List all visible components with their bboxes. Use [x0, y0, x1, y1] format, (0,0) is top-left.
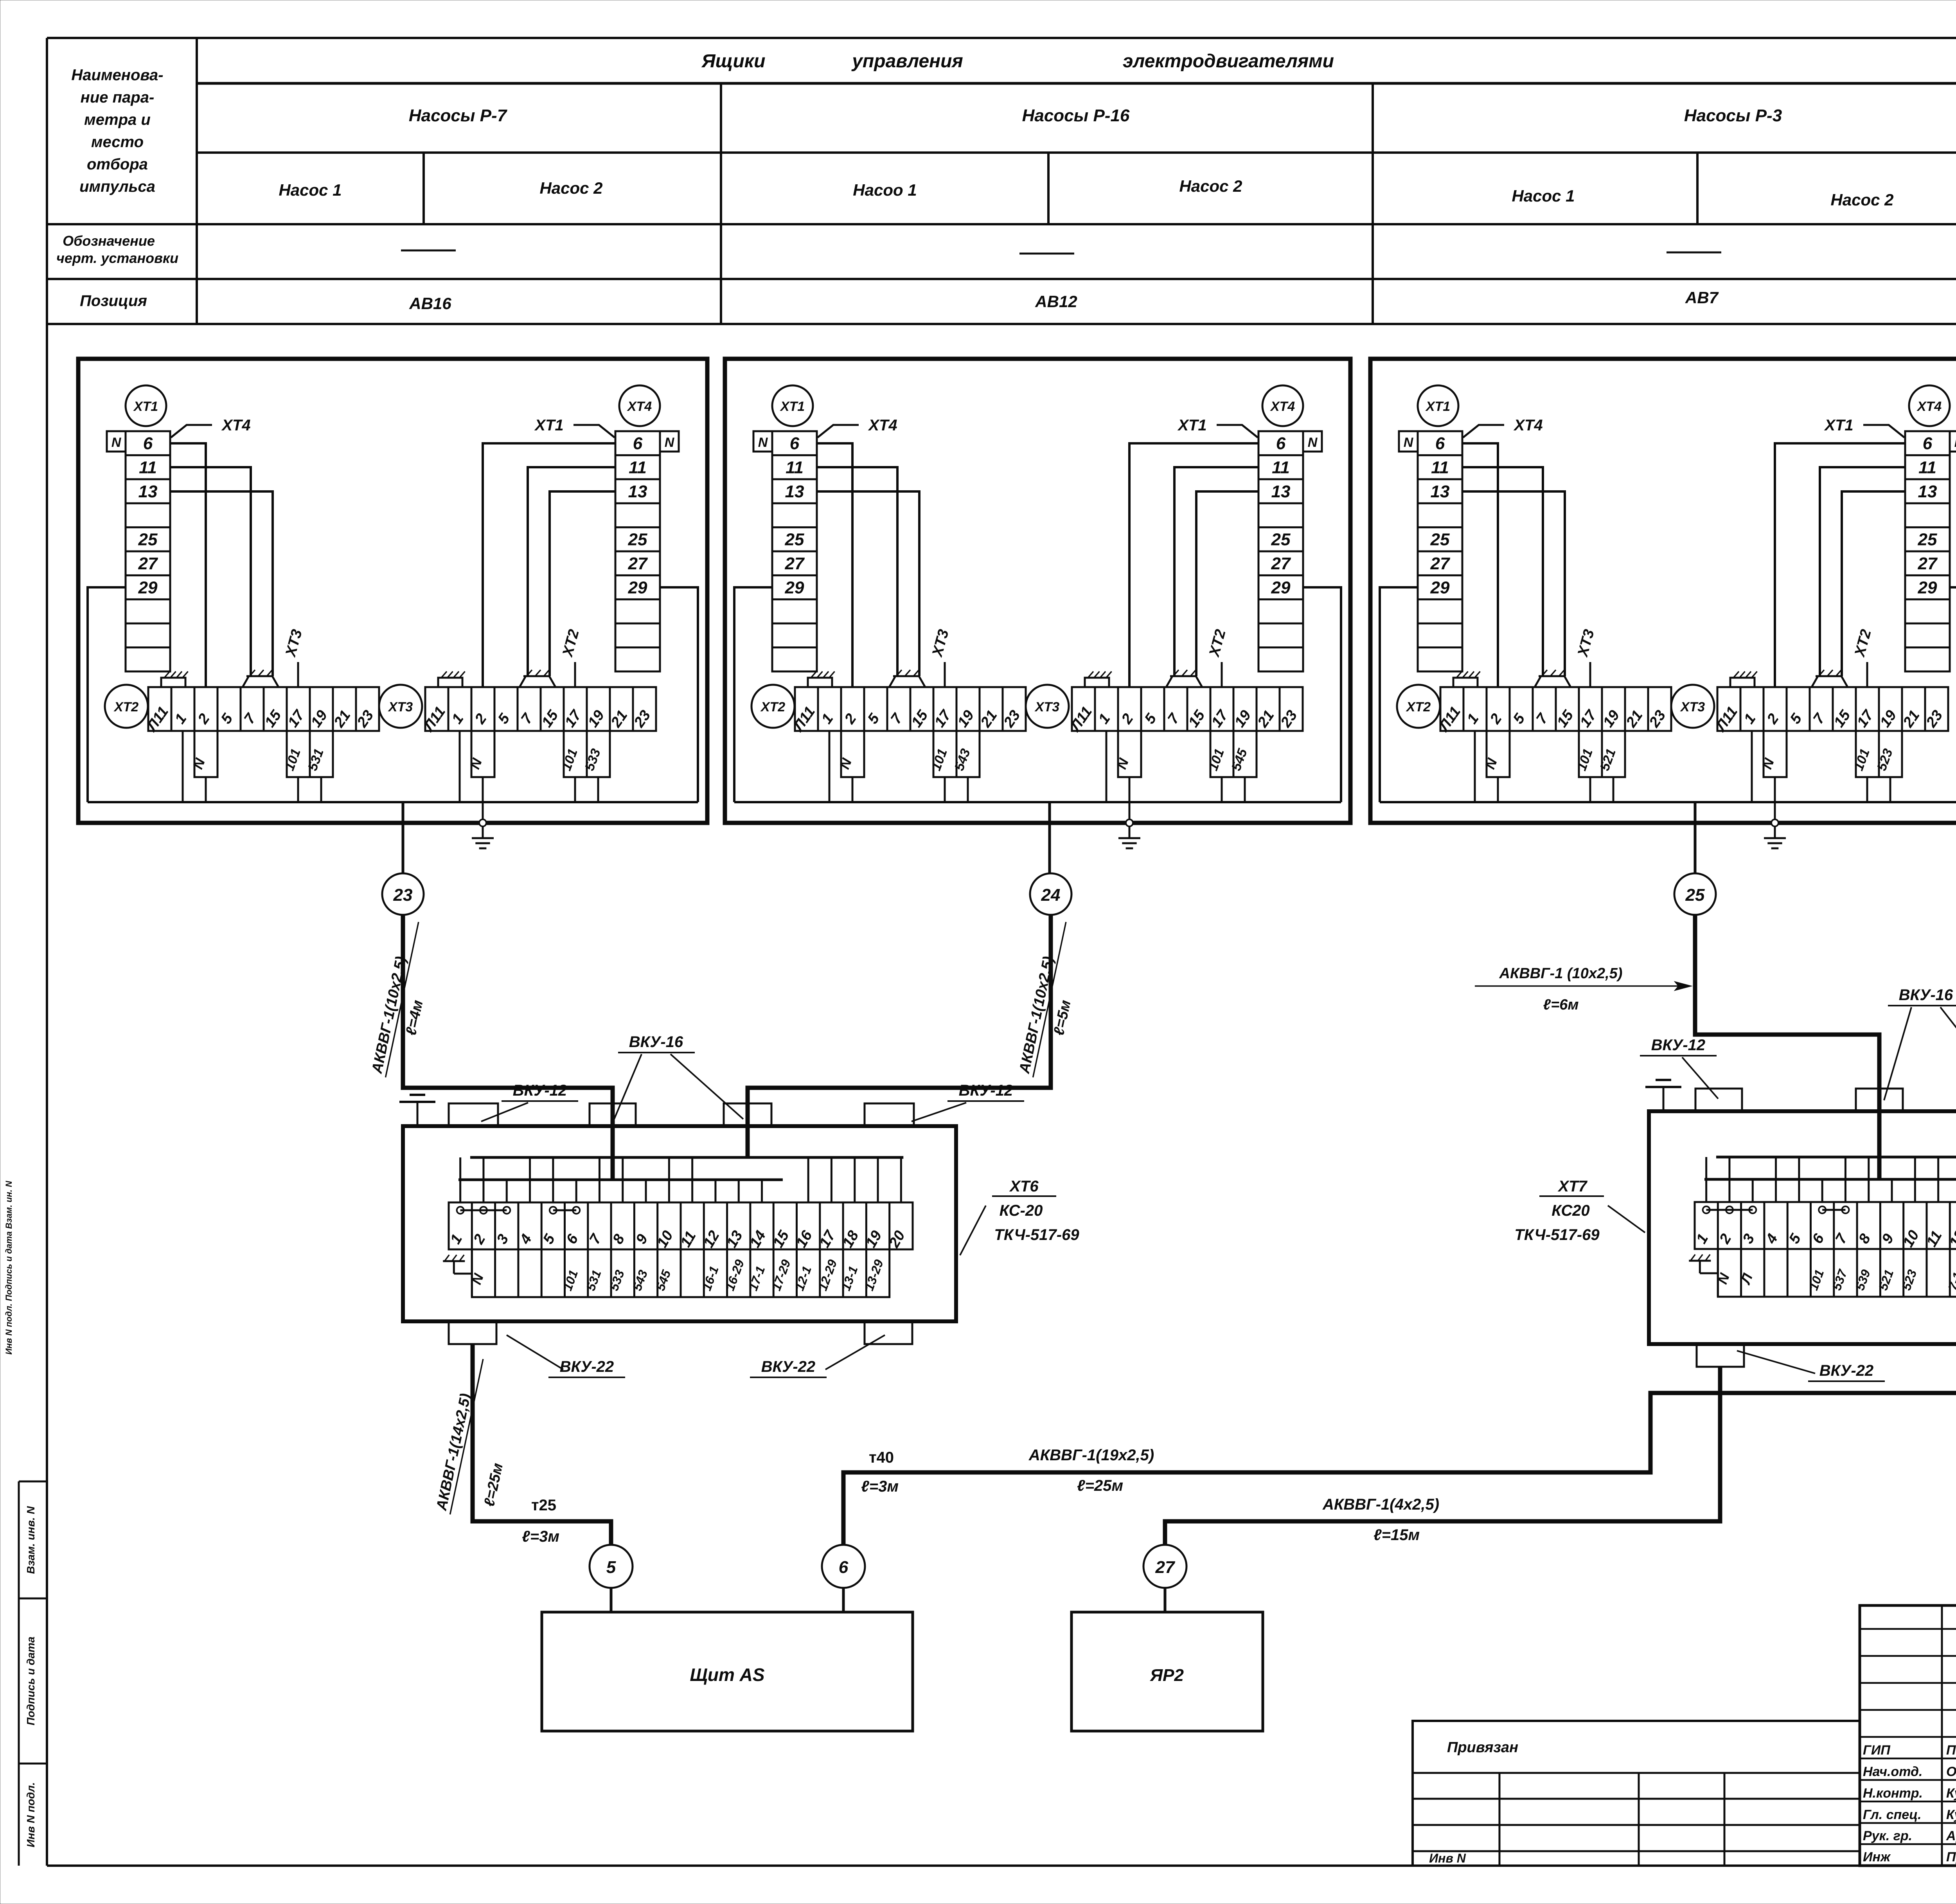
cable marker circle 6	[822, 1545, 865, 1588]
drops XT2-101/543 to bus (unit 2)	[944, 777, 946, 802]
svg-text:Насос 2: Насос 2	[539, 179, 602, 197]
connector circle XT4 (unit 2)	[1262, 385, 1303, 426]
svg-text:Взам. инв. N: Взам. инв. N	[25, 1506, 37, 1574]
svg-text:Инв N подл. Подпись и дата: Инв N подл. Подпись и дата Взам. ин. N	[4, 1181, 14, 1355]
wire XT4-11 to XT3-7 screen (unit 2)	[1174, 467, 1258, 676]
cable screen symbol over XT3-Л11 (unit 1)	[438, 678, 462, 687]
terminal N cell of XT1 (unit 2)	[753, 431, 772, 452]
svg-text:Кузнецов: Кузнецов	[1946, 1807, 1956, 1822]
earth wire from XT3-N (unit 3)	[1774, 777, 1776, 823]
XT7 top cable gland 1	[1695, 1089, 1742, 1111]
svg-text:13: 13	[1918, 482, 1937, 501]
svg-text:13: 13	[628, 482, 647, 501]
svg-text:ХТ1: ХТ1	[1177, 417, 1206, 434]
svg-text:27: 27	[628, 554, 648, 573]
terminal N cell of XT4 (unit 1)	[660, 431, 679, 452]
svg-text:КС20: КС20	[1551, 1202, 1589, 1219]
hanging terminal 101 below XT3-17 (unit 3)	[1856, 731, 1879, 777]
drops XT3-101/533 to bus (unit 1)	[574, 777, 576, 802]
XT7 top cable gland 2	[1856, 1089, 1903, 1111]
svg-text:Пивторак: Пивторак	[1946, 1743, 1956, 1758]
svg-text:Привязан: Привязан	[1447, 1739, 1518, 1756]
terminal strip XT4 (unit 2)	[1258, 431, 1303, 671]
svg-text:ХТ1: ХТ1	[780, 399, 805, 414]
svg-text:ХТ6: ХТ6	[1009, 1178, 1039, 1195]
svg-text:Инж: Инж	[1863, 1850, 1891, 1864]
svg-text:Насосы Р-3: Насосы Р-3	[1684, 106, 1782, 125]
cable marker circle 24	[1030, 873, 1071, 915]
hanging terminal 521 below XT2-19 (unit 3)	[1602, 731, 1625, 777]
XT6 bottom cable gland 2	[865, 1321, 912, 1344]
svg-text:5: 5	[606, 1558, 616, 1577]
cable screen symbol over XT3-Л11 (unit 3)	[1730, 678, 1755, 687]
hanging terminal 101 below XT2-17 (unit 1)	[287, 731, 310, 777]
svg-text:ВКУ-22: ВКУ-22	[761, 1358, 815, 1375]
svg-text:ТКЧ-517-69: ТКЧ-517-69	[1514, 1226, 1600, 1244]
svg-text:ХТ3: ХТ3	[1034, 700, 1059, 714]
wire XT4-6 to XT3-2 (unit 1)	[483, 443, 615, 687]
XT6 designation label	[960, 1206, 986, 1255]
hanging terminal N below XT2-2 (unit 1)	[194, 731, 218, 777]
svg-text:ХТ2: ХТ2	[1406, 700, 1431, 714]
svg-text:Подпись и дата: Подпись и дата	[25, 1637, 37, 1726]
connector circle XT3 (unit 3)	[1671, 685, 1714, 728]
XT7 wiring comb lower	[1704, 1178, 1956, 1181]
wire XT1-13 to XT2-15 screen (unit 2)	[817, 491, 919, 676]
svg-text:13: 13	[1271, 482, 1291, 501]
svg-text:ХТ1: ХТ1	[1425, 399, 1450, 414]
cable marker circle 23	[382, 873, 424, 915]
svg-text:24: 24	[1041, 885, 1061, 905]
riser XT1-29 to bus (unit 3)	[1380, 587, 1418, 802]
riser XT4-29 to bus (unit 2)	[1303, 587, 1341, 802]
cable screen symbol over XT2-7/15 (unit 2)	[889, 676, 925, 687]
svg-text:Насоо 1: Насоо 1	[853, 181, 917, 199]
connector circle XT1 (unit 2)	[772, 385, 813, 426]
svg-text:11: 11	[1272, 458, 1290, 477]
earth wire from XT3-N (unit 1)	[482, 777, 484, 823]
connector circle XT1 (unit 1)	[126, 385, 166, 426]
svg-text:25: 25	[138, 530, 158, 549]
svg-text:13: 13	[138, 482, 158, 501]
svg-text:ХТ1: ХТ1	[534, 417, 563, 434]
svg-text:управления: управления	[851, 51, 963, 72]
svg-text:ВКУ-22: ВКУ-22	[1819, 1362, 1873, 1379]
title block signature grid	[1860, 1628, 1956, 1630]
XT6 external earth at top	[417, 1102, 419, 1126]
connector circle XT4 (unit 1)	[619, 385, 660, 426]
XT6 top cable gland 2	[590, 1103, 636, 1126]
junction box XT6 outline	[403, 1126, 956, 1321]
svg-text:N: N	[1308, 435, 1318, 450]
wire XT1-6 to XT2-2 (unit 1)	[170, 443, 206, 687]
hanging terminal N below XT3-2 (unit 1)	[471, 731, 494, 777]
cable screen symbol over XT2-Л11 (unit 3)	[1453, 678, 1478, 687]
svg-text:27: 27	[785, 554, 805, 573]
terminal strip XT2 (unit 2)	[795, 687, 1026, 731]
wire XT1-6 to XT2-2 (unit 2)	[817, 443, 852, 687]
svg-text:27: 27	[138, 554, 158, 573]
internal earth bus (unit 1)	[88, 801, 698, 803]
svg-text:Насос 1: Насос 1	[279, 181, 342, 199]
label XT1 with leader (unit 3)	[1863, 425, 1904, 437]
svg-text:N: N	[758, 435, 768, 450]
svg-text:13: 13	[785, 482, 804, 501]
cable screen symbol over XT2-Л11 (unit 2)	[808, 678, 832, 687]
label ХТ2 pointer on XT3-17 (unit 1)	[574, 662, 576, 687]
hanging terminal N below XT3-2 (unit 2)	[1118, 731, 1141, 777]
label ХТ2 pointer on XT3-17 (unit 3)	[1866, 662, 1868, 687]
svg-text:Насосы Р-7: Насосы Р-7	[409, 106, 508, 125]
svg-text:ХТ4: ХТ4	[1513, 417, 1543, 434]
connector circle XT2 (unit 2)	[751, 685, 795, 728]
wire circle5 to panel	[610, 1588, 613, 1612]
svg-text:ХТ4: ХТ4	[868, 417, 897, 434]
svg-text:Кузнецов: Кузнецов	[1946, 1786, 1956, 1801]
svg-text:6: 6	[1923, 434, 1933, 453]
hanging terminal N below XT2-2 (unit 2)	[841, 731, 864, 777]
svg-text:29: 29	[1271, 578, 1291, 597]
drop XT2-N to bus (unit 3)	[1497, 777, 1499, 802]
wire XT4-11 to XT3-7 screen (unit 3)	[1820, 467, 1905, 676]
label XT4 with leader (unit 3)	[1463, 425, 1504, 437]
margin column boxes	[19, 1481, 47, 1483]
wire circle6 to panel	[842, 1588, 845, 1612]
svg-text:АКВВГ-1 (10х2,5): АКВВГ-1 (10х2,5)	[1499, 965, 1623, 982]
connector circle XT3 (unit 1)	[379, 685, 422, 728]
svg-text:Наименова-: Наименова-	[71, 67, 163, 84]
cable label АКВВГ-1(14х2,5)	[433, 1355, 483, 1514]
svg-text:Инв N подл.: Инв N подл.	[25, 1782, 37, 1847]
svg-text:25: 25	[628, 530, 647, 549]
svg-text:6: 6	[790, 434, 800, 453]
cable 24 label АКВВГ-1(10х2,5)	[1016, 918, 1066, 1077]
hanging terminal 101 below XT2-17 (unit 3)	[1579, 731, 1602, 777]
svg-text:27: 27	[1430, 554, 1451, 573]
svg-text:27: 27	[1918, 554, 1938, 573]
terminal N cell of XT4 (unit 2)	[1303, 431, 1322, 452]
svg-text:27: 27	[1155, 1558, 1176, 1577]
terminal strip XT4 (unit 3)	[1905, 431, 1950, 671]
box ЯР2	[1071, 1612, 1263, 1731]
cable screen symbol over XT2-Л11 (unit 1)	[161, 678, 185, 687]
cable exit wire to marker (unit 1)	[402, 802, 405, 874]
hanging terminal 101 below XT3-17 (unit 1)	[564, 731, 587, 777]
drop XT3-1 to bus (unit 3)	[1751, 731, 1753, 802]
terminal strip XT2 (unit 3)	[1440, 687, 1671, 731]
svg-text:ХТ2: ХТ2	[760, 700, 785, 714]
label XT1 with leader (unit 2)	[1217, 425, 1258, 437]
cable screen symbol over XT3-7/15 (unit 2)	[1166, 676, 1202, 687]
wire XT1-11 to XT2-7 screen (unit 2)	[817, 467, 897, 676]
svg-text:11: 11	[786, 458, 804, 477]
terminal strip XT1 (unit 2)	[772, 431, 817, 671]
hanging terminal 101 below XT2-17 (unit 2)	[933, 731, 956, 777]
svg-text:ХТ4: ХТ4	[1916, 399, 1942, 414]
terminal strip XT3 (unit 1)	[425, 687, 656, 731]
terminal strip XT1 (unit 3)	[1418, 431, 1462, 671]
control box unit 3 outline	[1370, 359, 1956, 823]
drawing designation dashes	[401, 250, 456, 252]
svg-text:27: 27	[1271, 554, 1291, 573]
drops XT2-101/531 to bus (unit 1)	[297, 777, 299, 802]
wire circle27 to box	[1164, 1588, 1167, 1612]
label XT1 with leader (unit 1)	[573, 425, 615, 437]
junction box XT7 outline	[1649, 1111, 1956, 1344]
svg-text:Арнаутова: Арнаутова	[1946, 1828, 1956, 1843]
cable 24 run to XT6	[748, 915, 1051, 1126]
drop XT2-N to bus (unit 1)	[205, 777, 207, 802]
svg-text:6: 6	[143, 434, 153, 453]
connector circle XT2 (unit 3)	[1397, 685, 1440, 728]
wire XT4-13 to XT3-15 screen (unit 3)	[1842, 491, 1905, 676]
wire XT4-13 to XT3-15 screen (unit 2)	[1196, 491, 1258, 676]
drops XT2-101/521 to bus (unit 3)	[1589, 777, 1591, 802]
svg-text:ХТ1: ХТ1	[133, 399, 158, 414]
riser XT4-29 to bus (unit 3)	[1950, 587, 1956, 802]
svg-text:место: место	[91, 133, 144, 151]
svg-text:25: 25	[1430, 530, 1450, 549]
wire XT1-6 to XT2-2 (unit 3)	[1462, 443, 1498, 687]
svg-text:11: 11	[1918, 458, 1936, 477]
riser XT1-29 to bus (unit 1)	[88, 587, 126, 802]
svg-text:ВКУ-12: ВКУ-12	[1651, 1037, 1705, 1054]
svg-text:Н.контр.: Н.контр.	[1863, 1786, 1923, 1801]
svg-text:ВКУ-16: ВКУ-16	[629, 1033, 683, 1051]
connector circle XT1 (unit 3)	[1418, 385, 1458, 426]
cable screen symbol over XT2-7/15 (unit 3)	[1535, 676, 1571, 687]
svg-text:Ящики: Ящики	[701, 51, 766, 72]
svg-text:Позиция: Позиция	[80, 292, 147, 310]
svg-text:ХТ4: ХТ4	[221, 417, 250, 434]
svg-text:29: 29	[628, 578, 647, 597]
svg-text:ВКУ-16: ВКУ-16	[1899, 986, 1953, 1004]
svg-text:N: N	[111, 435, 122, 450]
XT6 wiring comb upper	[470, 1156, 903, 1159]
wire XT1-11 to XT2-7 screen (unit 3)	[1462, 467, 1543, 676]
svg-text:ВКУ-12: ВКУ-12	[513, 1082, 567, 1099]
XT7 designation label	[1608, 1206, 1645, 1233]
hanging terminal 543 below XT2-19 (unit 2)	[956, 731, 980, 777]
earth electrode (unit 1)	[479, 819, 486, 826]
label XT4 with leader (unit 1)	[171, 425, 212, 437]
cable exit wire to marker (unit 3)	[1694, 802, 1697, 874]
connector circle XT3 (unit 2)	[1026, 685, 1069, 728]
terminal strip XT3 (unit 2)	[1072, 687, 1303, 731]
svg-text:25: 25	[785, 530, 804, 549]
svg-text:29: 29	[1430, 578, 1450, 597]
svg-text:N: N	[1954, 435, 1956, 450]
XT6 top cable gland 3	[724, 1103, 771, 1126]
svg-text:Проимкина: Проимкина	[1946, 1850, 1956, 1864]
panel Щит AS box	[542, 1612, 913, 1731]
reference table Привязан	[1413, 1721, 1860, 1866]
svg-text:ХТ2: ХТ2	[113, 700, 138, 714]
cable screen symbol over XT3-7/15 (unit 1)	[520, 676, 556, 687]
svg-text:Обозначение: Обозначение	[63, 233, 155, 249]
cable screen symbol over XT2-7/15 (unit 1)	[243, 676, 279, 687]
hanging terminal N below XT3-2 (unit 3)	[1764, 731, 1787, 777]
drop XT2-1 to bus (unit 1)	[182, 731, 184, 802]
hanging terminal N below XT2-2 (unit 3)	[1487, 731, 1510, 777]
XT6 top cable gland 1	[449, 1103, 498, 1126]
cable marker circle 5	[590, 1545, 633, 1588]
label ХТ3 pointer on XT2-17 (unit 3)	[1589, 662, 1591, 687]
svg-text:Огурцов: Огурцов	[1946, 1764, 1956, 1779]
svg-text:черт. установки: черт. установки	[56, 250, 178, 266]
svg-text:ℓ=3м: ℓ=3м	[861, 1478, 899, 1495]
svg-text:метра и: метра и	[84, 111, 151, 128]
XT7 external earth at top	[1663, 1087, 1665, 1111]
wire XT4-13 to XT3-15 screen (unit 1)	[550, 491, 615, 676]
svg-text:КС-20: КС-20	[1000, 1202, 1043, 1219]
drops XT3-101/523 to bus (unit 3)	[1866, 777, 1868, 802]
drops XT3-101/545 to bus (unit 2)	[1221, 777, 1223, 802]
svg-text:11: 11	[1431, 458, 1449, 477]
riser XT4-29 to bus (unit 1)	[660, 587, 698, 802]
cable screen symbol over XT3-7/15 (unit 3)	[1812, 676, 1848, 687]
cable marker circle 25	[1674, 873, 1716, 915]
svg-text:N: N	[1404, 435, 1414, 450]
svg-text:Насос 2: Насос 2	[1830, 191, 1893, 209]
svg-text:отбора: отбора	[87, 156, 148, 173]
svg-text:АВ16: АВ16	[409, 294, 451, 313]
svg-text:ℓ=15м: ℓ=15м	[1374, 1526, 1420, 1544]
hanging terminal 531 below XT2-19 (unit 1)	[310, 731, 333, 777]
label ХТ3 pointer on XT2-17 (unit 2)	[944, 662, 946, 687]
XT7 lower terminal row	[1718, 1249, 1956, 1297]
terminal strip XT1 (unit 1)	[126, 431, 170, 671]
terminal N cell of XT1 (unit 3)	[1399, 431, 1418, 452]
wire XT1-13 to XT2-15 screen (unit 3)	[1462, 491, 1565, 676]
svg-text:ВКУ-22: ВКУ-22	[560, 1358, 614, 1375]
drop XT2-1 to bus (unit 2)	[829, 731, 831, 802]
terminal N cell of XT4 (unit 3)	[1950, 431, 1956, 452]
svg-text:АКВВГ-1(19х2,5): АКВВГ-1(19х2,5)	[1028, 1447, 1154, 1464]
cable from circle 6 to XT7 (19x2,5)	[843, 1367, 1956, 1545]
connector circle XT4 (unit 3)	[1909, 385, 1950, 426]
XT6 wiring comb lower	[458, 1179, 783, 1181]
svg-text:Щит AS: Щит AS	[690, 1665, 764, 1685]
control box unit 1 outline	[78, 359, 707, 823]
label ХТ3 pointer on XT2-17 (unit 1)	[297, 662, 299, 687]
terminal strip XT4 (unit 1)	[615, 431, 660, 671]
svg-text:ХТ4: ХТ4	[1270, 399, 1295, 414]
wire XT1-11 to XT2-7 screen (unit 1)	[170, 467, 251, 676]
svg-text:ХТ4: ХТ4	[627, 399, 652, 414]
svg-text:ХТ7: ХТ7	[1557, 1178, 1587, 1195]
XT6 top cable gland 4	[865, 1103, 914, 1126]
cable 23 label АКВВГ-1(10х2,5)	[368, 918, 418, 1077]
svg-text:ℓ=3м: ℓ=3м	[522, 1528, 559, 1545]
terminal strip XT2 (unit 1)	[148, 687, 379, 731]
drop XT3-1 to bus (unit 1)	[459, 731, 461, 802]
svg-text:Гл. спец.: Гл. спец.	[1863, 1807, 1922, 1822]
XT6 lower terminal row	[472, 1249, 889, 1297]
hanging terminal 101 below XT3-17 (unit 2)	[1210, 731, 1233, 777]
connector circle XT2 (unit 1)	[105, 685, 148, 728]
svg-text:Рук. гр.: Рук. гр.	[1863, 1828, 1912, 1843]
cable exit wire to marker (unit 2)	[1048, 802, 1051, 874]
cable from XT6 to pipe т25	[473, 1345, 611, 1545]
cable marker circle 27	[1143, 1545, 1187, 1588]
cable 23 run to XT6	[403, 915, 613, 1126]
internal earth bus (unit 2)	[734, 801, 1341, 803]
XT6 bottom cable gland 1	[449, 1321, 496, 1344]
svg-text:Насос 2: Насос 2	[1179, 177, 1242, 195]
svg-text:Насос 1: Насос 1	[1512, 187, 1575, 205]
svg-text:т40: т40	[869, 1449, 894, 1466]
svg-text:Насосы Р-16: Насосы Р-16	[1022, 106, 1130, 125]
wire XT4-6 to XT3-2 (unit 3)	[1775, 443, 1905, 687]
earth electrode (unit 2)	[1126, 819, 1133, 826]
svg-text:ℓ=25м: ℓ=25м	[1077, 1477, 1123, 1494]
svg-text:ТКЧ-517-69: ТКЧ-517-69	[994, 1226, 1079, 1244]
svg-text:электродвигателями: электродвигателями	[1123, 51, 1334, 72]
sheet frame	[47, 37, 1956, 39]
terminal strip XT3 (unit 3)	[1717, 687, 1948, 731]
svg-text:ХТ1: ХТ1	[1824, 417, 1853, 434]
svg-text:25: 25	[1685, 885, 1705, 905]
svg-text:11: 11	[139, 458, 157, 477]
svg-text:Инв N: Инв N	[1429, 1851, 1466, 1865]
svg-text:6: 6	[633, 434, 643, 453]
hanging terminal 533 below XT3-19 (unit 1)	[587, 731, 610, 777]
XT6 internal earth	[454, 1273, 472, 1275]
svg-text:импульса: импульса	[79, 178, 155, 195]
earth wire from XT3-N (unit 2)	[1129, 777, 1131, 823]
svg-text:6: 6	[1435, 434, 1445, 453]
hanging terminal 545 below XT3-19 (unit 2)	[1233, 731, 1257, 777]
svg-text:23: 23	[393, 885, 413, 905]
svg-text:13: 13	[1431, 482, 1450, 501]
svg-text:ℓ=6м: ℓ=6м	[1543, 997, 1578, 1013]
title block outline	[1860, 1605, 1956, 1866]
svg-text:29: 29	[785, 578, 804, 597]
svg-text:N: N	[665, 435, 675, 450]
svg-text:ВКУ-12: ВКУ-12	[959, 1082, 1013, 1099]
XT7 wiring comb upper	[1716, 1156, 1956, 1159]
terminal N cell of XT1 (unit 1)	[107, 431, 126, 452]
svg-text:ГИП: ГИП	[1863, 1743, 1891, 1758]
svg-text:Нач.отд.: Нач.отд.	[1863, 1764, 1922, 1779]
svg-text:ХТ3: ХТ3	[388, 700, 413, 714]
earth electrode (unit 3)	[1771, 819, 1778, 826]
svg-text:АКВВГ-1(4х2,5): АКВВГ-1(4х2,5)	[1322, 1496, 1439, 1513]
cable 25 run to XT7	[1695, 915, 1879, 1111]
drop XT2-N to bus (unit 2)	[852, 777, 854, 802]
label XT4 with leader (unit 2)	[818, 425, 859, 437]
XT7 jumper links	[1703, 1206, 1710, 1213]
hanging terminal 523 below XT3-19 (unit 3)	[1879, 731, 1902, 777]
drop XT3-1 to bus (unit 2)	[1106, 731, 1107, 802]
svg-text:29: 29	[138, 578, 158, 597]
XT7 bottom cable gland 1	[1697, 1344, 1744, 1367]
cable from circle 27 to XT7 (4x2,5)	[1165, 1367, 1720, 1545]
drop XT2-1 to bus (unit 3)	[1474, 731, 1476, 802]
header table grid	[197, 82, 1956, 85]
svg-text:25: 25	[1271, 530, 1291, 549]
svg-text:т25: т25	[531, 1497, 556, 1514]
svg-text:ние пара-: ние пара-	[81, 89, 155, 106]
svg-text:ХТ3: ХТ3	[1680, 700, 1705, 714]
wire XT1-13 to XT2-15 screen (unit 1)	[170, 491, 273, 676]
svg-text:АВ7: АВ7	[1685, 288, 1719, 307]
svg-text:6: 6	[839, 1558, 849, 1577]
wire XT4-6 to XT3-2 (unit 2)	[1129, 443, 1258, 687]
wire XT4-11 to XT3-7 screen (unit 1)	[528, 467, 615, 676]
internal earth bus (unit 3)	[1380, 801, 1956, 803]
